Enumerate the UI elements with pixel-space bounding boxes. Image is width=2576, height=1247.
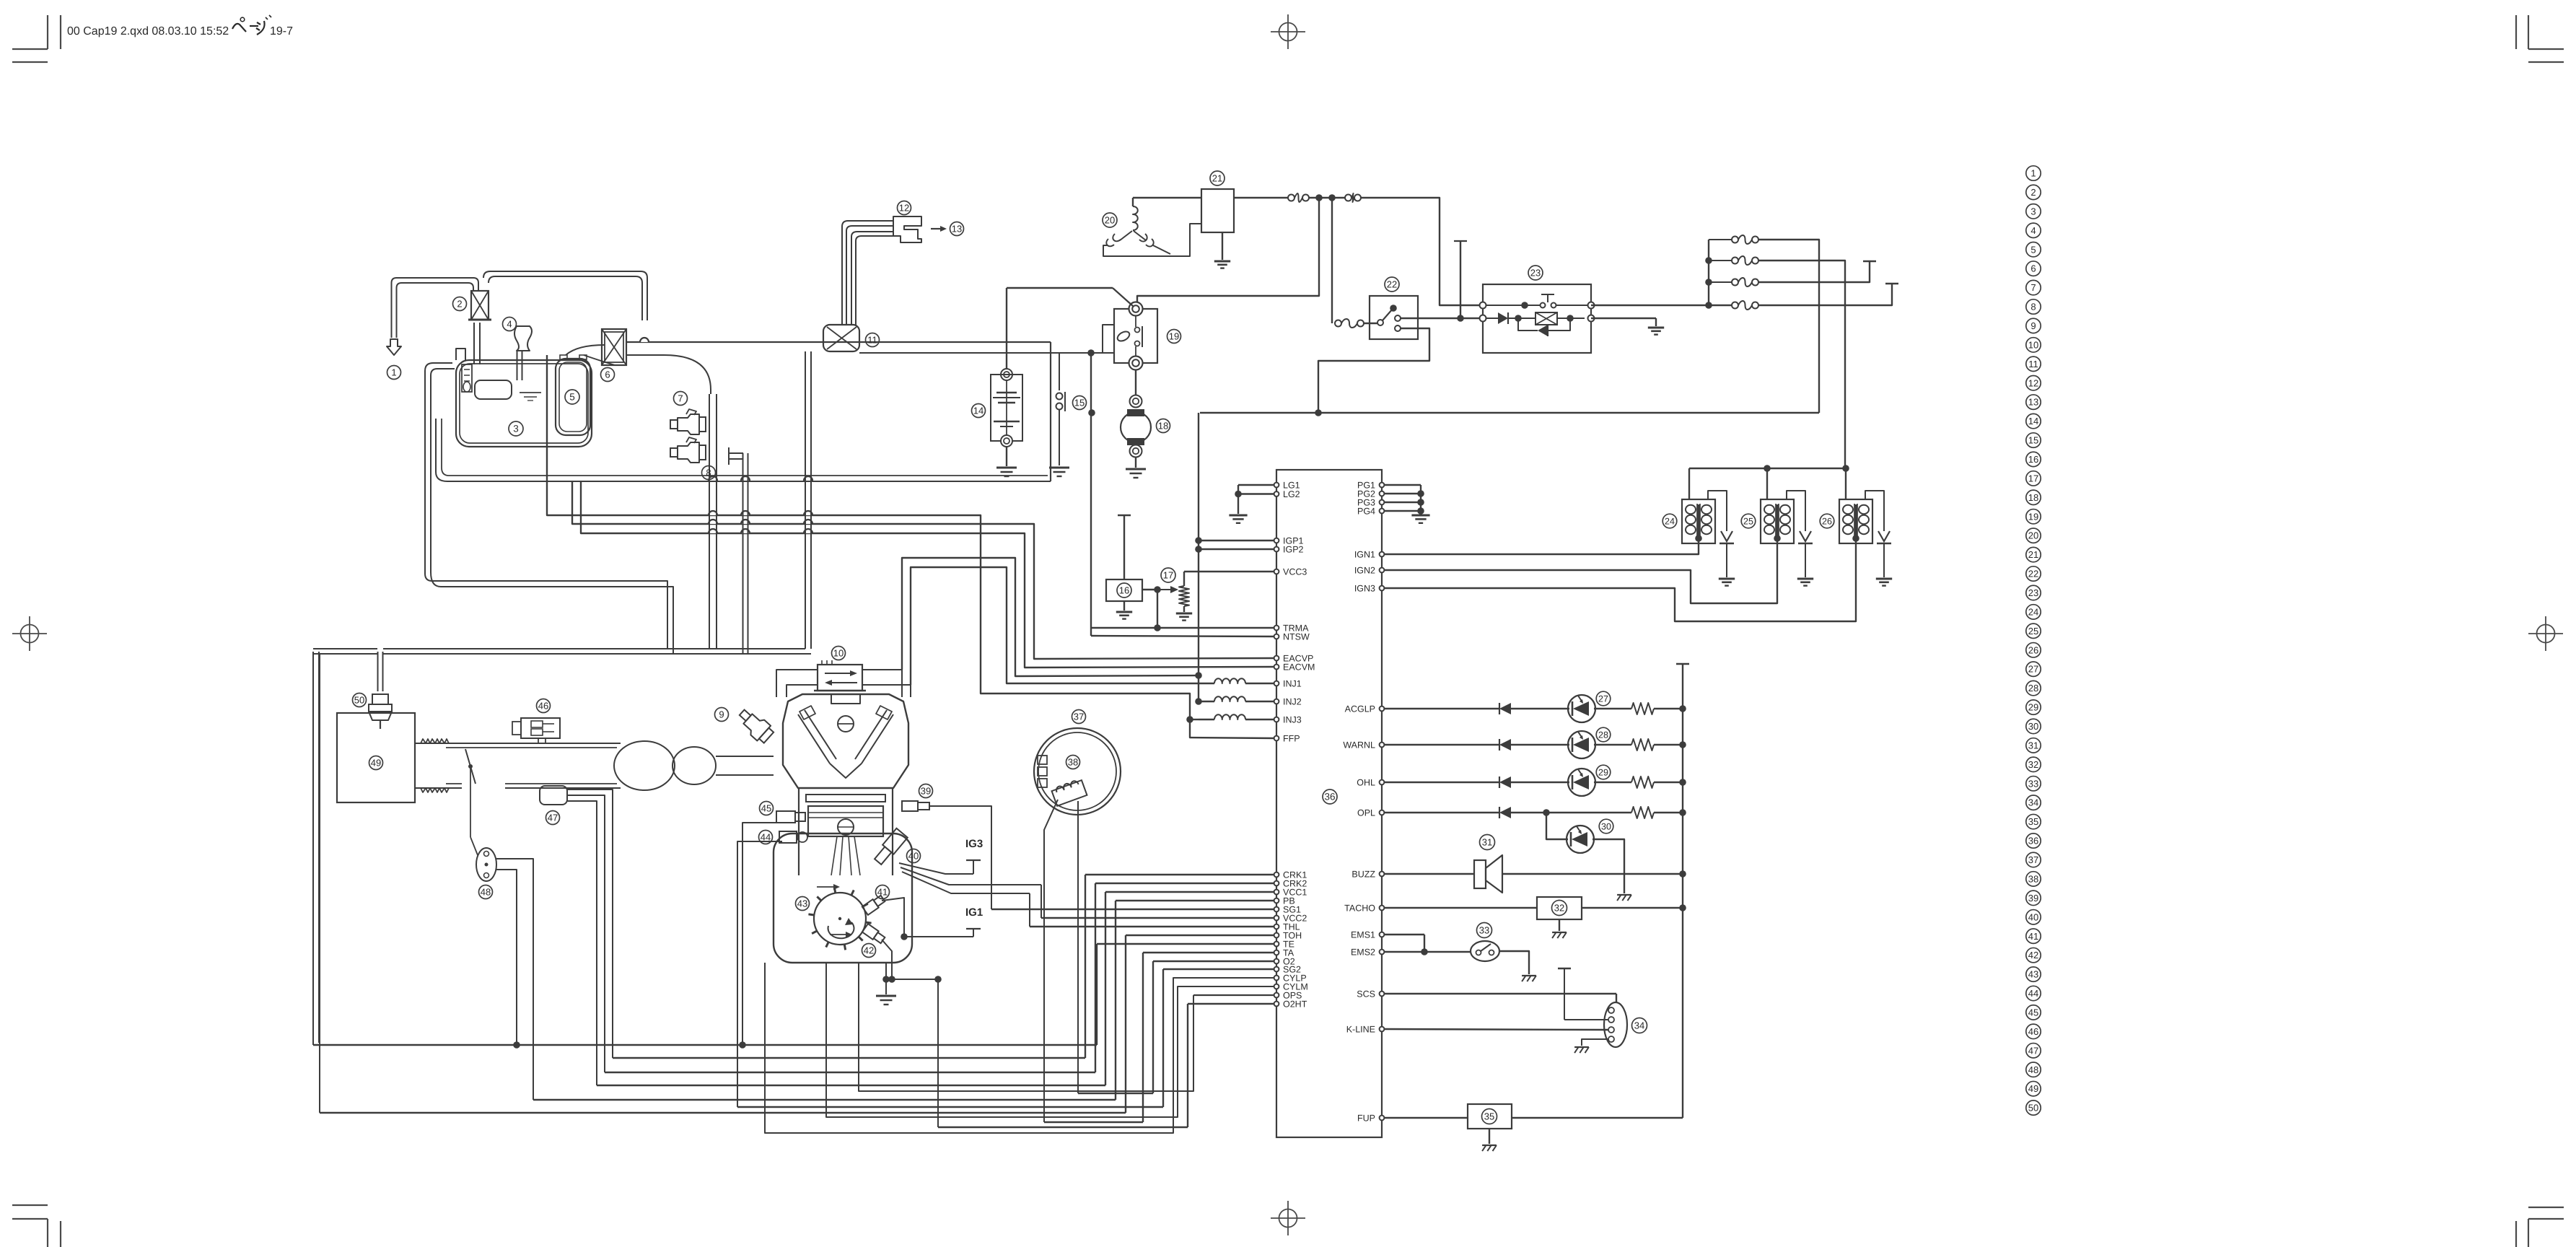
svg-text:10: 10 <box>2028 339 2038 350</box>
svg-text:17: 17 <box>1163 570 1173 581</box>
svg-text:13: 13 <box>2028 397 2038 408</box>
svg-text:O2HT: O2HT <box>1283 999 1307 1010</box>
svg-text:23: 23 <box>1530 268 1541 279</box>
svg-text:28: 28 <box>1598 730 1608 740</box>
svg-text:IGN1: IGN1 <box>1354 550 1375 560</box>
svg-text:K-LINE: K-LINE <box>1346 1025 1375 1035</box>
svg-text:11: 11 <box>867 335 877 346</box>
svg-text:49: 49 <box>2028 1083 2038 1094</box>
svg-text:34: 34 <box>2028 797 2038 808</box>
svg-text:38: 38 <box>1068 757 1078 768</box>
svg-text:24: 24 <box>2028 606 2038 617</box>
svg-text:00 Cap19 2.qxd 08.03.10 15:5: 00 Cap19 2.qxd 08.03.10 15:52 <box>67 25 229 38</box>
svg-text:6: 6 <box>605 369 610 380</box>
svg-text:INJ3: INJ3 <box>1283 715 1302 725</box>
svg-text:30: 30 <box>2028 721 2038 732</box>
svg-text:43: 43 <box>797 898 807 909</box>
svg-text:42: 42 <box>2028 950 2038 961</box>
svg-text:46: 46 <box>538 701 548 712</box>
svg-text:LG2: LG2 <box>1283 489 1300 499</box>
svg-text:PG4: PG4 <box>1357 507 1375 517</box>
svg-text:17: 17 <box>2028 473 2038 484</box>
svg-text:41: 41 <box>877 887 888 898</box>
svg-text:37: 37 <box>2028 854 2038 865</box>
svg-text:16: 16 <box>2028 454 2038 465</box>
svg-text:47: 47 <box>548 813 558 823</box>
svg-text:3: 3 <box>2030 206 2036 216</box>
svg-text:14: 14 <box>2028 416 2038 426</box>
svg-text:31: 31 <box>2028 740 2038 751</box>
svg-text:45: 45 <box>761 803 771 814</box>
svg-text:18: 18 <box>2028 492 2038 503</box>
svg-text:11: 11 <box>2028 359 2038 369</box>
svg-text:ACGLP: ACGLP <box>1345 704 1375 714</box>
svg-text:22: 22 <box>2028 569 2038 579</box>
svg-text:30: 30 <box>1601 821 1611 831</box>
svg-text:WARNL: WARNL <box>1343 740 1375 751</box>
svg-text:35: 35 <box>1484 1111 1494 1122</box>
svg-text:31: 31 <box>1482 837 1492 848</box>
svg-text:49: 49 <box>371 758 381 769</box>
svg-text:32: 32 <box>1554 903 1564 914</box>
svg-text:42: 42 <box>864 945 874 956</box>
svg-text:9: 9 <box>719 709 724 720</box>
svg-text:21: 21 <box>1212 173 1222 184</box>
svg-text:IGN2: IGN2 <box>1354 566 1375 576</box>
svg-text:IG1: IG1 <box>965 906 983 919</box>
svg-text:44: 44 <box>2028 988 2038 999</box>
svg-text:1: 1 <box>2030 168 2036 179</box>
svg-text:OPL: OPL <box>1357 808 1375 818</box>
svg-text:2: 2 <box>2030 187 2036 198</box>
svg-text:13: 13 <box>952 224 962 235</box>
svg-text:14: 14 <box>973 406 983 416</box>
svg-text:20: 20 <box>2028 530 2038 541</box>
svg-text:40: 40 <box>2028 911 2038 922</box>
svg-text:26: 26 <box>1822 516 1832 526</box>
svg-text:8: 8 <box>706 468 711 478</box>
svg-text:47: 47 <box>2028 1045 2038 1056</box>
svg-text:16: 16 <box>1119 585 1129 596</box>
svg-text:41: 41 <box>2028 931 2038 942</box>
svg-text:OHL: OHL <box>1357 778 1375 788</box>
svg-text:25: 25 <box>2028 626 2038 636</box>
svg-text:SCS: SCS <box>1357 989 1375 999</box>
svg-text:23: 23 <box>2028 587 2038 598</box>
svg-text:IGP2: IGP2 <box>1283 545 1304 555</box>
svg-text:50: 50 <box>354 695 364 706</box>
svg-text:12: 12 <box>2028 377 2038 388</box>
svg-text:45: 45 <box>2028 1007 2038 1018</box>
svg-text:28: 28 <box>2028 683 2038 693</box>
svg-text:EMS1: EMS1 <box>1351 930 1375 940</box>
svg-text:50: 50 <box>2028 1103 2038 1113</box>
svg-text:24: 24 <box>1665 516 1675 526</box>
svg-text:EMS2: EMS2 <box>1351 948 1375 958</box>
svg-text:18: 18 <box>1158 421 1168 432</box>
svg-text:48: 48 <box>481 887 491 898</box>
svg-text:46: 46 <box>2028 1026 2038 1037</box>
svg-text:29: 29 <box>1598 767 1608 777</box>
svg-text:7: 7 <box>2030 282 2036 293</box>
svg-text:8: 8 <box>2030 302 2036 312</box>
svg-text:3: 3 <box>513 424 519 434</box>
svg-text:33: 33 <box>1479 925 1489 936</box>
svg-text:4: 4 <box>507 319 512 330</box>
svg-text:FFP: FFP <box>1283 734 1300 744</box>
svg-text:9: 9 <box>2030 320 2036 331</box>
svg-text:27: 27 <box>1598 693 1608 704</box>
svg-text:38: 38 <box>2028 873 2038 884</box>
svg-text:15: 15 <box>1074 398 1085 408</box>
svg-text:12: 12 <box>899 203 909 214</box>
svg-text:EACVM: EACVM <box>1283 662 1315 673</box>
svg-text:34: 34 <box>1634 1020 1644 1031</box>
svg-text:TACHO: TACHO <box>1344 903 1375 914</box>
svg-text:19: 19 <box>1169 331 1179 342</box>
svg-text:27: 27 <box>2028 664 2038 675</box>
svg-text:10: 10 <box>833 648 844 659</box>
svg-text:25: 25 <box>1743 516 1753 526</box>
svg-text:19-7: 19-7 <box>270 25 293 38</box>
svg-text:33: 33 <box>2028 778 2038 789</box>
svg-text:7: 7 <box>678 393 683 404</box>
svg-text:21: 21 <box>2028 549 2038 560</box>
svg-text:6: 6 <box>2030 263 2036 274</box>
svg-text:39: 39 <box>2028 893 2038 903</box>
svg-text:39: 39 <box>921 786 931 797</box>
svg-text:32: 32 <box>2028 759 2038 770</box>
svg-text:2: 2 <box>457 299 462 310</box>
svg-text:19: 19 <box>2028 511 2038 522</box>
svg-text:22: 22 <box>1387 279 1397 290</box>
svg-text:5: 5 <box>2030 244 2036 255</box>
svg-text:INJ1: INJ1 <box>1283 679 1302 689</box>
svg-text:NTSW: NTSW <box>1283 632 1310 642</box>
svg-text:15: 15 <box>2028 435 2038 446</box>
svg-text:FUP: FUP <box>1357 1113 1375 1124</box>
svg-text:INJ2: INJ2 <box>1283 697 1302 707</box>
svg-text:IG3: IG3 <box>965 838 983 850</box>
svg-text:36: 36 <box>1324 792 1335 802</box>
svg-text:48: 48 <box>2028 1064 2038 1075</box>
svg-text:36: 36 <box>2028 836 2038 846</box>
svg-text:37: 37 <box>1074 712 1084 722</box>
svg-text:29: 29 <box>2028 702 2038 713</box>
svg-text:1: 1 <box>391 367 396 378</box>
svg-text:BUZZ: BUZZ <box>1351 870 1375 880</box>
svg-text:20: 20 <box>1105 215 1115 226</box>
svg-text:26: 26 <box>2028 644 2038 655</box>
svg-text:40: 40 <box>908 851 919 862</box>
svg-text:4: 4 <box>2030 225 2036 236</box>
svg-text:VCC3: VCC3 <box>1283 567 1307 577</box>
svg-text:IGN3: IGN3 <box>1354 584 1375 594</box>
svg-text:35: 35 <box>2028 816 2038 827</box>
svg-text:43: 43 <box>2028 969 2038 980</box>
svg-text:5: 5 <box>569 392 575 403</box>
